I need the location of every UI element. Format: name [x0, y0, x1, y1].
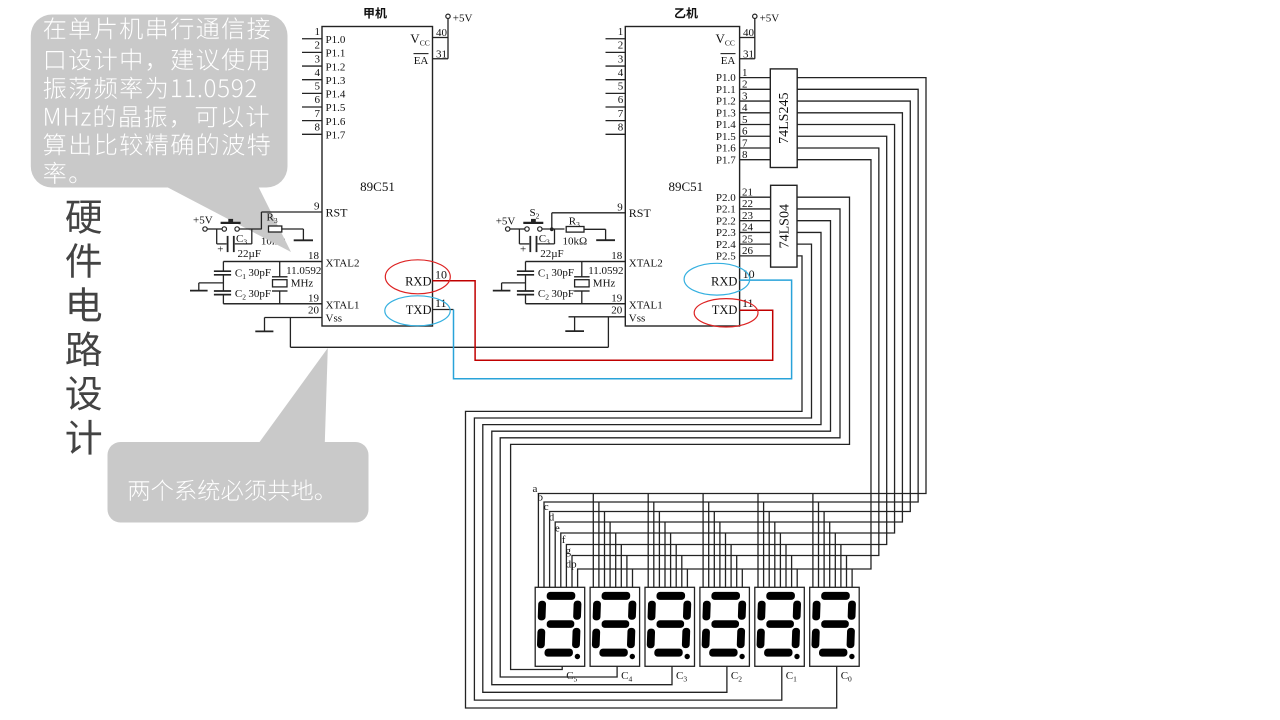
svg-text:MHz: MHz [593, 277, 616, 289]
svg-text:5: 5 [315, 81, 321, 93]
svg-text:+: + [217, 244, 223, 256]
svg-text:P1.5: P1.5 [326, 102, 346, 114]
svg-text:C3: C3 [236, 233, 247, 247]
svg-text:P1.0: P1.0 [326, 34, 346, 46]
svg-text:C2: C2 [538, 288, 549, 302]
svg-text:3: 3 [315, 53, 321, 65]
svg-text:18: 18 [611, 250, 623, 262]
svg-text:VCC: VCC [716, 31, 735, 48]
svg-text:3: 3 [742, 90, 748, 102]
svg-text:S2: S2 [530, 207, 540, 221]
svg-text:5: 5 [742, 114, 748, 126]
svg-text:30pF: 30pF [248, 267, 271, 279]
svg-text:40: 40 [743, 27, 755, 39]
svg-text:C2: C2 [731, 670, 742, 684]
svg-text:P2.2: P2.2 [716, 215, 736, 227]
svg-text:C3: C3 [539, 233, 550, 247]
svg-text:3: 3 [618, 53, 624, 65]
svg-text:TXD: TXD [406, 303, 432, 317]
svg-text:RST: RST [326, 205, 349, 219]
svg-text:6: 6 [742, 126, 748, 138]
svg-text:P1.1: P1.1 [716, 84, 736, 96]
svg-text:P2.5: P2.5 [716, 251, 736, 263]
svg-text:20: 20 [611, 304, 623, 316]
svg-text:+: + [520, 244, 526, 256]
svg-text:XTAL2: XTAL2 [326, 257, 360, 269]
svg-text:R3: R3 [267, 212, 278, 226]
svg-text:C1: C1 [786, 670, 797, 684]
svg-text:19: 19 [611, 293, 623, 305]
svg-text:23: 23 [742, 210, 754, 222]
svg-text:7: 7 [742, 137, 748, 149]
svg-text:+5V: +5V [496, 216, 516, 228]
svg-text:74LS04: 74LS04 [777, 204, 792, 248]
svg-text:26: 26 [742, 245, 754, 257]
svg-text:C0: C0 [841, 670, 852, 684]
svg-text:Vss: Vss [326, 312, 343, 324]
svg-text:4: 4 [315, 67, 321, 79]
svg-text:4: 4 [742, 102, 748, 114]
svg-text:C1: C1 [538, 267, 549, 281]
svg-text:TXD: TXD [712, 303, 738, 317]
svg-text:22µF: 22µF [238, 248, 261, 260]
svg-text:RXD: RXD [711, 275, 737, 289]
svg-text:EA: EA [721, 55, 736, 67]
svg-text:e: e [555, 523, 560, 535]
svg-text:P1.5: P1.5 [716, 131, 736, 143]
svg-text:9: 9 [617, 201, 623, 213]
svg-text:g: g [566, 545, 572, 557]
svg-text:1: 1 [618, 26, 624, 38]
svg-text:P1.1: P1.1 [326, 48, 346, 60]
svg-text:2: 2 [618, 40, 624, 52]
svg-text:31: 31 [436, 48, 447, 60]
svg-text:C2: C2 [235, 288, 246, 302]
svg-text:C4: C4 [621, 670, 632, 684]
svg-text:VCC: VCC [410, 31, 429, 48]
svg-text:C1: C1 [235, 267, 246, 281]
svg-text:P1.7: P1.7 [716, 154, 736, 166]
svg-text:P1.6: P1.6 [716, 143, 736, 155]
svg-text:6: 6 [618, 94, 624, 106]
svg-text:XTAL1: XTAL1 [326, 300, 360, 312]
svg-text:P1.2: P1.2 [716, 96, 736, 108]
svg-text:89C51: 89C51 [668, 179, 703, 194]
svg-text:8: 8 [742, 149, 748, 161]
svg-text:30pF: 30pF [248, 288, 271, 300]
svg-text:2: 2 [315, 40, 321, 52]
svg-text:MHz: MHz [291, 277, 314, 289]
svg-text:1: 1 [315, 26, 321, 38]
svg-text:+5V: +5V [193, 215, 213, 227]
svg-text:b: b [538, 492, 544, 504]
svg-text:P1.7: P1.7 [326, 130, 346, 142]
svg-text:11.0592: 11.0592 [286, 265, 321, 277]
svg-text:22µF: 22µF [540, 248, 563, 260]
svg-text:dp: dp [566, 559, 578, 571]
svg-text:8: 8 [315, 122, 321, 134]
svg-text:11.0592: 11.0592 [588, 265, 623, 277]
svg-text:P1.0: P1.0 [716, 72, 736, 84]
svg-text:21: 21 [742, 187, 753, 199]
svg-text:4: 4 [618, 67, 624, 79]
svg-text:R3: R3 [569, 216, 580, 230]
svg-text:P1.4: P1.4 [326, 89, 346, 101]
svg-text:20: 20 [308, 305, 320, 317]
svg-text:24: 24 [742, 222, 754, 234]
svg-text:d: d [549, 512, 555, 524]
svg-text:25: 25 [742, 233, 754, 245]
svg-text:30pF: 30pF [551, 288, 574, 300]
svg-text:P1.2: P1.2 [326, 61, 346, 73]
svg-text:74LS245: 74LS245 [777, 93, 792, 144]
svg-text:P2.1: P2.1 [716, 204, 736, 216]
svg-text:9: 9 [314, 201, 320, 213]
svg-text:P2.3: P2.3 [716, 227, 736, 239]
svg-text:89C51: 89C51 [360, 179, 395, 194]
svg-text:7: 7 [315, 108, 321, 120]
svg-text:RXD: RXD [405, 275, 431, 289]
svg-text:30pF: 30pF [551, 267, 574, 279]
svg-text:31: 31 [743, 48, 754, 60]
svg-text:EA: EA [414, 55, 429, 67]
svg-text:6: 6 [315, 94, 321, 106]
svg-text:P1.4: P1.4 [716, 119, 736, 131]
svg-text:8: 8 [618, 122, 624, 134]
svg-text:P1.3: P1.3 [326, 75, 346, 87]
svg-text:Vss: Vss [629, 312, 646, 324]
svg-text:19: 19 [308, 293, 320, 305]
svg-text:P2.4: P2.4 [716, 239, 736, 251]
svg-text:XTAL1: XTAL1 [629, 300, 663, 312]
svg-text:10: 10 [435, 268, 447, 282]
svg-text:2: 2 [742, 79, 748, 91]
svg-text:RST: RST [629, 206, 652, 220]
svg-text:10: 10 [743, 267, 755, 281]
svg-text:1: 1 [742, 67, 748, 79]
svg-text:10kΩ: 10kΩ [563, 236, 588, 248]
svg-text:P2.0: P2.0 [716, 192, 736, 204]
svg-text:18: 18 [308, 250, 320, 262]
svg-text:C3: C3 [676, 670, 687, 684]
svg-text:XTAL2: XTAL2 [629, 257, 663, 269]
svg-text:+5V: +5V [453, 12, 473, 24]
svg-text:P1.6: P1.6 [326, 116, 346, 128]
svg-text:22: 22 [742, 198, 753, 210]
svg-text:7: 7 [618, 108, 624, 120]
svg-text:P1.3: P1.3 [716, 107, 736, 119]
svg-text:+5V: +5V [760, 12, 780, 24]
svg-text:40: 40 [436, 27, 448, 39]
svg-text:5: 5 [618, 81, 624, 93]
